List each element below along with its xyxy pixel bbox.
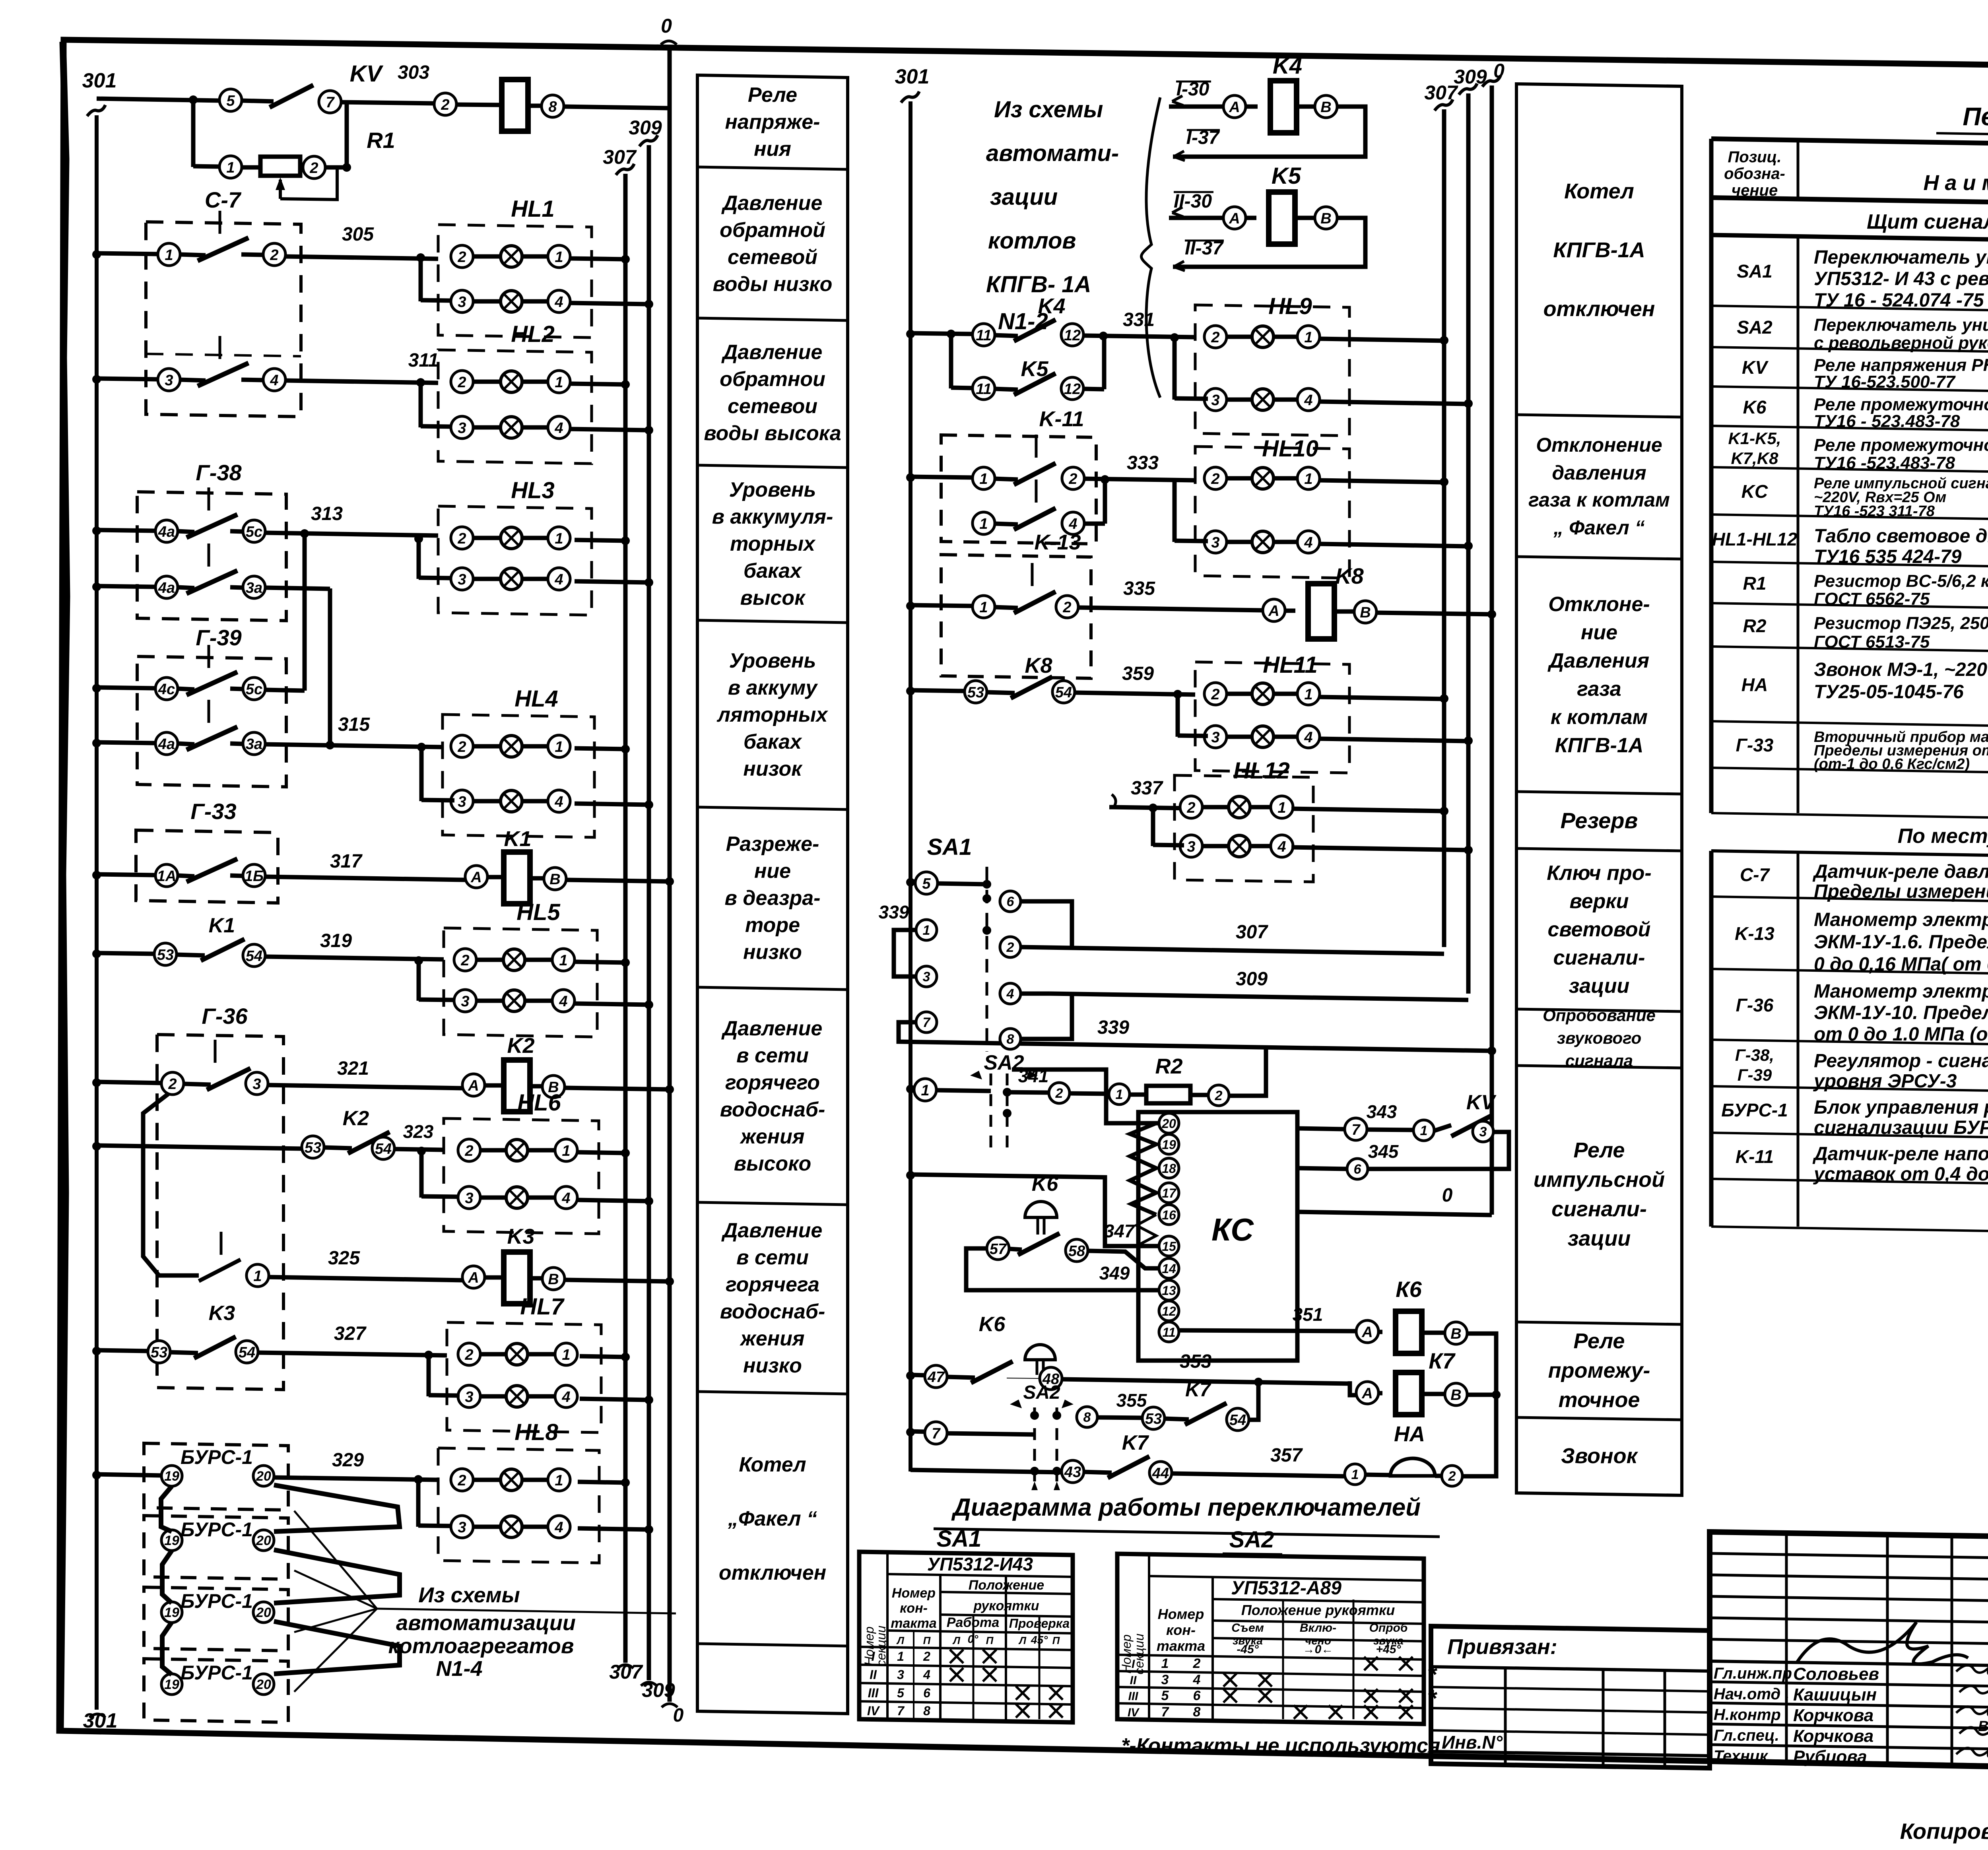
svg-text:K1-K5,: K1-K5, <box>1728 429 1781 448</box>
svg-text:БУРС-1: БУРС-1 <box>1721 1100 1788 1120</box>
svg-text:5: 5 <box>922 875 931 892</box>
svg-text:к котлам: к котлам <box>1551 706 1648 729</box>
svg-text:1: 1 <box>1277 800 1286 816</box>
svg-text:53: 53 <box>157 947 174 963</box>
svg-text:1: 1 <box>1161 1656 1169 1671</box>
svg-text:ГОСТ 6513-75: ГОСТ 6513-75 <box>1814 632 1930 652</box>
svg-text:торе: торе <box>745 914 800 937</box>
svg-text:в сети: в сети <box>736 1044 809 1067</box>
svg-text:Переключатель универсальный: Переключатель универсальный <box>1814 247 1988 268</box>
svg-text:K5: K5 <box>1272 163 1301 189</box>
svg-text:импульсной: импульсной <box>1534 1168 1665 1192</box>
svg-text:307: 307 <box>1424 82 1458 104</box>
svg-text:7: 7 <box>326 94 335 111</box>
svg-text:точное: точное <box>1559 1388 1640 1412</box>
svg-text:БУРС-1: БУРС-1 <box>181 1518 253 1541</box>
svg-text:KC: KC <box>1741 481 1768 502</box>
svg-text:КС: КС <box>1211 1212 1254 1247</box>
svg-text:307: 307 <box>1236 922 1268 943</box>
svg-text:337: 337 <box>1131 778 1163 799</box>
svg-text:C-7: C-7 <box>1740 864 1771 885</box>
svg-text:20: 20 <box>256 1677 271 1692</box>
svg-text:Давление: Давление <box>721 192 823 215</box>
svg-text:SA2: SA2 <box>1023 1382 1060 1403</box>
svg-text:53: 53 <box>1145 1411 1162 1427</box>
svg-text:Копировал: Ганкова: Копировал: Ганкова <box>1900 1819 1988 1844</box>
svg-text:Л: Л <box>896 1635 905 1646</box>
svg-text:4а: 4а <box>158 524 175 540</box>
svg-text:339: 339 <box>879 902 909 922</box>
svg-text:3: 3 <box>458 294 466 311</box>
svg-text:339: 339 <box>1097 1017 1129 1038</box>
svg-text:323: 323 <box>403 1121 434 1142</box>
svg-text:Г-33: Г-33 <box>1736 735 1774 755</box>
svg-text:B: B <box>549 871 560 888</box>
svg-text:19: 19 <box>164 1605 179 1620</box>
svg-text:сетевой: сетевой <box>728 246 817 269</box>
svg-text:SA2: SA2 <box>1229 1527 1274 1553</box>
svg-text:11: 11 <box>976 381 991 398</box>
svg-text:3: 3 <box>465 1190 473 1207</box>
svg-text:HL1-HL12: HL1-HL12 <box>1712 529 1798 549</box>
svg-text:3: 3 <box>1211 392 1219 409</box>
svg-text:Корчкова: Корчкова <box>1793 1706 1873 1725</box>
svg-text:4: 4 <box>1006 986 1014 1002</box>
svg-text:19: 19 <box>164 1469 179 1484</box>
svg-text:KV: KV <box>1466 1091 1497 1114</box>
svg-text:3: 3 <box>461 993 469 1010</box>
svg-text:343: 343 <box>1367 1101 1397 1122</box>
svg-text:K-11: K-11 <box>1039 407 1084 431</box>
svg-text:3: 3 <box>458 420 466 437</box>
svg-text:световой: световой <box>1548 918 1651 941</box>
svg-text:44: 44 <box>1152 1465 1169 1482</box>
svg-text:чение: чение <box>1732 182 1778 199</box>
svg-text:секции: секции <box>874 1625 888 1666</box>
svg-text:П: П <box>1052 1635 1060 1646</box>
svg-text:HL1: HL1 <box>511 196 555 222</box>
svg-text:ТУ25-05-1045-76: ТУ25-05-1045-76 <box>1814 681 1964 703</box>
svg-text:20: 20 <box>256 1605 271 1620</box>
svg-text:Г-36: Г-36 <box>202 1004 248 1029</box>
svg-text:HL11: HL11 <box>1263 652 1318 678</box>
svg-text:Реле: Реле <box>1574 1329 1625 1353</box>
svg-text:такта: такта <box>1157 1638 1205 1654</box>
svg-text:Отклонение: Отклонение <box>1536 434 1662 456</box>
svg-text:18: 18 <box>1162 1161 1176 1176</box>
svg-text:7: 7 <box>923 1015 931 1030</box>
svg-text:Реле промежуточное РП-25,~220V: Реле промежуточное РП-25,~220V,3з+2р <box>1814 435 1988 455</box>
svg-text:КПГВ-1А: КПГВ-1А <box>1553 238 1645 262</box>
svg-text:Г-36: Г-36 <box>1736 995 1774 1015</box>
svg-text:C-7: C-7 <box>205 187 242 212</box>
svg-text:обратнои: обратнои <box>720 368 825 391</box>
svg-text:БУРС-1: БУРС-1 <box>181 1446 253 1468</box>
svg-text:1: 1 <box>1351 1467 1359 1482</box>
svg-text:с револьверной рукояткой ТУ16-: с револьверной рукояткой ТУ16-524 074 -7… <box>1814 333 1988 353</box>
svg-text:3: 3 <box>1211 729 1219 746</box>
svg-text:отключен: отключен <box>1543 297 1655 321</box>
svg-text:3: 3 <box>897 1668 904 1682</box>
svg-text:Котел: Котел <box>739 1453 806 1476</box>
svg-text:7: 7 <box>932 1425 941 1442</box>
svg-text:Из схемы: Из схемы <box>994 97 1103 122</box>
svg-text:1: 1 <box>555 1472 563 1489</box>
svg-text:305: 305 <box>342 224 374 245</box>
svg-text:от 0 до 1.0 МПа (от 0 до 1: от 0 до 1.0 МПа (от 0 до 10 кгс/см²) <box>1814 1024 1988 1045</box>
svg-text:газа: газа <box>1577 677 1621 701</box>
svg-text:K1: K1 <box>504 827 531 851</box>
svg-text:345: 345 <box>1368 1141 1399 1162</box>
svg-text:Регулятор - сигнализатор: Регулятор - сигнализатор <box>1814 1050 1988 1072</box>
svg-text:11: 11 <box>1162 1325 1175 1339</box>
svg-text:3: 3 <box>165 372 173 389</box>
svg-text:2: 2 <box>1211 329 1219 346</box>
svg-text:ТУ 16-523.500-77: ТУ 16-523.500-77 <box>1814 372 1956 392</box>
svg-text:4: 4 <box>554 794 563 810</box>
svg-text:ЭКМ-1У-1.6. Пределы измерения: ЭКМ-1У-1.6. Пределы измерения от <box>1814 932 1988 953</box>
svg-text:329: 329 <box>332 1450 364 1471</box>
svg-text:воды высока: воды высока <box>704 422 841 445</box>
svg-text:3: 3 <box>458 794 466 810</box>
svg-text:баках: баках <box>744 730 802 753</box>
svg-text:Разреже-: Разреже- <box>726 833 819 856</box>
svg-text:6: 6 <box>1193 1688 1201 1703</box>
svg-text:1: 1 <box>555 249 563 266</box>
svg-text:4: 4 <box>270 372 278 389</box>
svg-text:327: 327 <box>334 1323 367 1344</box>
svg-text:3: 3 <box>1161 1672 1169 1687</box>
svg-text:2: 2 <box>1055 1086 1063 1101</box>
svg-text:A: A <box>470 869 481 886</box>
svg-text:309: 309 <box>629 116 662 139</box>
svg-text:58: 58 <box>1068 1243 1085 1260</box>
svg-text:Номер: Номер <box>1158 1606 1204 1622</box>
svg-text:54: 54 <box>375 1141 392 1157</box>
svg-text:7: 7 <box>1161 1704 1170 1720</box>
svg-text:303: 303 <box>398 62 429 83</box>
svg-text:2: 2 <box>464 1143 473 1159</box>
svg-text:0: 0 <box>661 15 672 37</box>
svg-text:Инв.N°: Инв.N° <box>1442 1732 1503 1753</box>
svg-text:1А: 1А <box>157 868 177 885</box>
svg-text:K-11: K-11 <box>1736 1146 1774 1167</box>
svg-text:Гл.инж.пр: Гл.инж.пр <box>1714 1665 1792 1682</box>
svg-text:в аккуму: в аккуму <box>728 676 819 699</box>
svg-text:333: 333 <box>1127 452 1159 474</box>
svg-text:6: 6 <box>923 1686 930 1700</box>
svg-text:SA2: SA2 <box>1737 317 1773 338</box>
svg-text:1: 1 <box>555 739 563 755</box>
svg-text:HL4: HL4 <box>514 686 558 712</box>
svg-text:II: II <box>870 1668 877 1682</box>
svg-text:2: 2 <box>460 952 469 969</box>
svg-text:УП5312-И43: УП5312-И43 <box>927 1554 1033 1574</box>
svg-text:ТУ16 -523.483-78: ТУ16 -523.483-78 <box>1814 453 1955 473</box>
svg-text:331: 331 <box>1123 309 1155 330</box>
svg-text:4: 4 <box>554 294 563 311</box>
svg-text:1: 1 <box>562 1347 570 1363</box>
svg-text:Манометр электроконтактный: Манометр электроконтактный <box>1814 981 1988 1002</box>
svg-text:1: 1 <box>979 599 988 616</box>
svg-text:5c: 5c <box>246 681 262 698</box>
svg-text:I: I <box>872 1649 876 1664</box>
svg-text:Позиц.: Позиц. <box>1728 148 1782 166</box>
svg-text:301: 301 <box>83 1709 118 1732</box>
svg-text:0°: 0° <box>968 1633 979 1645</box>
svg-text:Положение: Положение <box>969 1578 1044 1593</box>
svg-text:рукоятки: рукоятки <box>973 1598 1039 1613</box>
svg-text:359: 359 <box>1122 663 1154 684</box>
svg-text:Давление: Давление <box>721 341 823 364</box>
svg-text:Н а и м е н о в а н и е: Н а и м е н о в а н и е <box>1924 171 1988 195</box>
svg-text:8: 8 <box>1007 1032 1014 1047</box>
svg-text:0: 0 <box>1493 60 1505 82</box>
svg-text:B: B <box>1450 1387 1461 1404</box>
svg-text:2: 2 <box>270 247 278 264</box>
svg-text:K6: K6 <box>1743 397 1767 417</box>
svg-text:ГОСТ 6562-75: ГОСТ 6562-75 <box>1814 589 1930 609</box>
svg-text:2: 2 <box>1193 1656 1201 1671</box>
svg-text:такта: такта <box>891 1616 937 1631</box>
svg-text:IV: IV <box>867 1704 880 1718</box>
svg-text:53: 53 <box>967 684 984 701</box>
svg-text:жения: жения <box>739 1327 804 1350</box>
svg-text:Рубцова: Рубцова <box>1793 1747 1867 1767</box>
svg-text:в деазра-: в деазра- <box>724 887 820 910</box>
svg-text:давления: давления <box>1552 462 1646 484</box>
svg-text:17: 17 <box>1162 1186 1177 1200</box>
svg-text:Пределы измерения от 1 до 10 к: Пределы измерения от 1 до 10 кгс/см² <box>1814 881 1988 902</box>
svg-text:K-13: K-13 <box>1034 530 1081 554</box>
svg-text:313: 313 <box>311 503 343 524</box>
svg-text:R1: R1 <box>367 128 395 153</box>
svg-text:A: A <box>1361 1324 1373 1341</box>
svg-text:сигнала: сигнала <box>1565 1051 1633 1070</box>
svg-text:357: 357 <box>1270 1445 1303 1466</box>
svg-text:кон-: кон- <box>900 1601 928 1616</box>
svg-text:„Факел “: „Факел “ <box>728 1507 817 1530</box>
svg-text:0 до 0,16 МПа( от 0 до 1,6 кгс: 0 до 0,16 МПа( от 0 до 1,6 кгс/см²) <box>1814 954 1988 975</box>
svg-text:HL2: HL2 <box>511 321 555 347</box>
svg-text:Давления: Давления <box>1547 649 1649 672</box>
svg-text:КПГВ- 1А: КПГВ- 1А <box>986 272 1091 297</box>
svg-text:11: 11 <box>976 327 991 344</box>
svg-text:307: 307 <box>603 146 637 168</box>
svg-text:Г-38: Г-38 <box>196 460 242 485</box>
svg-text:2: 2 <box>457 739 466 755</box>
svg-text:K4: K4 <box>1038 294 1065 318</box>
svg-text:Соловьев: Соловьев <box>1793 1664 1879 1684</box>
svg-text:301: 301 <box>895 65 930 88</box>
svg-text:1: 1 <box>1304 329 1312 346</box>
svg-text:II: II <box>1130 1674 1137 1687</box>
svg-text:2: 2 <box>464 1347 473 1363</box>
svg-text:2: 2 <box>441 97 449 113</box>
svg-text:чено: чено <box>1305 1635 1331 1647</box>
svg-text:4а: 4а <box>158 736 175 753</box>
svg-text:III: III <box>1128 1690 1138 1703</box>
svg-text:баках: баках <box>744 559 802 582</box>
svg-text:1: 1 <box>979 471 988 487</box>
svg-text:Табло световое двухламповое ТС: Табло световое двухламповое ТСБ <box>1814 526 1988 547</box>
svg-text:котлов: котлов <box>988 228 1076 254</box>
svg-text:К7: К7 <box>1429 1348 1456 1373</box>
svg-text:1: 1 <box>1304 471 1312 487</box>
svg-text:сигнали-: сигнали- <box>1551 1197 1647 1221</box>
svg-text:2: 2 <box>1211 686 1219 703</box>
svg-text:K2: K2 <box>343 1107 369 1130</box>
svg-text:Нач.отд .: Нач.отд . <box>1714 1685 1789 1703</box>
svg-text:4: 4 <box>561 1389 570 1405</box>
svg-text:HL9: HL9 <box>1268 293 1312 319</box>
svg-text:промежу-: промежу- <box>1548 1359 1650 1382</box>
svg-text:5: 5 <box>1161 1688 1169 1703</box>
svg-text:K8: K8 <box>1025 654 1052 677</box>
svg-text:3: 3 <box>458 571 466 588</box>
svg-text:низко: низко <box>743 941 802 964</box>
svg-text:Работа: Работа <box>947 1615 1000 1630</box>
svg-text:HA: HA <box>1741 674 1768 695</box>
svg-text:1: 1 <box>1304 686 1312 703</box>
svg-text:II-30: II-30 <box>1174 191 1212 212</box>
svg-text:19: 19 <box>1162 1138 1176 1152</box>
svg-text:зации: зации <box>1569 975 1630 998</box>
svg-text:Н.контр: Н.контр <box>1714 1706 1781 1724</box>
svg-text:12: 12 <box>1162 1304 1176 1318</box>
svg-text:Уровень: Уровень <box>729 478 816 501</box>
svg-text:ТУ16 -523 311-78: ТУ16 -523 311-78 <box>1814 503 1935 520</box>
svg-text:Опробование: Опробование <box>1543 1006 1656 1025</box>
svg-text:„ Факел “: „ Факел “ <box>1553 516 1645 539</box>
svg-text:A: A <box>1229 210 1240 227</box>
svg-text:УП5312- И 43 с револьверной ру: УП5312- И 43 с револьверной рукояткой <box>1814 268 1988 289</box>
svg-text:3: 3 <box>465 1389 473 1405</box>
svg-text:347: 347 <box>1104 1221 1136 1241</box>
svg-text:ТУ 16 - 524.074 -75: ТУ 16 - 524.074 -75 <box>1814 290 1984 311</box>
svg-text:воды низко: воды низко <box>713 273 833 296</box>
svg-text:газа к котлам: газа к котлам <box>1528 489 1670 511</box>
svg-text:4: 4 <box>923 1668 930 1682</box>
svg-text:19: 19 <box>164 1533 179 1548</box>
svg-text:обратной: обратной <box>720 219 825 242</box>
svg-text:2: 2 <box>309 160 318 177</box>
svg-text:БУРС-1: БУРС-1 <box>181 1590 253 1612</box>
svg-text:HA: HA <box>1394 1422 1425 1446</box>
svg-text:уставок от 0,4 до 4 КПа(от 40: уставок от 0,4 до 4 КПа(от 40 до 400 кгс… <box>1813 1164 1988 1185</box>
svg-text:2: 2 <box>1186 800 1195 816</box>
svg-text:1: 1 <box>253 1268 262 1285</box>
svg-text:54: 54 <box>239 1344 255 1361</box>
svg-text:Г-33: Г-33 <box>190 799 236 824</box>
svg-text:4: 4 <box>559 993 567 1010</box>
svg-text:Переключатель универсальный УП: Переключатель универсальный УП5312-А89 <box>1814 315 1988 335</box>
svg-text:уровня ЭРСУ-3: уровня ЭРСУ-3 <box>1813 1071 1957 1092</box>
svg-text:K7: K7 <box>1122 1431 1149 1454</box>
svg-text:обозна-: обозна- <box>1724 165 1785 182</box>
svg-text:ТУ16 - 523.483-78: ТУ16 - 523.483-78 <box>1814 412 1960 431</box>
svg-text:A: A <box>468 1270 479 1286</box>
svg-text:349: 349 <box>1099 1263 1130 1283</box>
svg-text:звука: звука <box>1373 1635 1404 1647</box>
svg-text:высоко: высоко <box>734 1152 812 1175</box>
svg-text:горячега: горячега <box>726 1273 819 1296</box>
svg-text:1: 1 <box>897 1649 904 1664</box>
svg-text:1: 1 <box>165 247 173 264</box>
svg-text:Резистор ПЭ25, 2500 Ом: Резистор ПЭ25, 2500 Ом <box>1814 613 1988 633</box>
svg-text:K1: K1 <box>209 914 235 937</box>
svg-text:3а: 3а <box>246 580 262 596</box>
svg-text:торных: торных <box>730 532 816 555</box>
svg-text:8: 8 <box>1083 1410 1091 1425</box>
svg-text:Вспомогательное оборудование: Вспомогательное оборудование <box>1978 1718 1988 1734</box>
svg-text:351: 351 <box>1293 1304 1323 1325</box>
svg-text:HL7: HL7 <box>520 1294 565 1320</box>
svg-text:3: 3 <box>252 1076 261 1093</box>
svg-text:1: 1 <box>979 516 988 532</box>
svg-text:321: 321 <box>337 1058 369 1079</box>
svg-text:A: A <box>1268 603 1279 619</box>
svg-text:Реле: Реле <box>748 83 797 107</box>
svg-text:4: 4 <box>1304 534 1312 551</box>
svg-text:низко: низко <box>743 1354 802 1377</box>
svg-text:B: B <box>1320 99 1331 116</box>
svg-text:3: 3 <box>1211 534 1219 551</box>
svg-text:2: 2 <box>457 1472 466 1489</box>
svg-text:7: 7 <box>897 1704 905 1718</box>
svg-text:1: 1 <box>226 159 235 176</box>
svg-text:Датчик-реле давления ДД 10-20: Датчик-реле давления ДД 10-20 <box>1812 861 1988 882</box>
svg-text:0: 0 <box>1442 1185 1453 1206</box>
svg-text:HL12: HL12 <box>1233 758 1290 784</box>
svg-text:HL6: HL6 <box>517 1090 561 1116</box>
svg-text:водоснаб-: водоснаб- <box>720 1300 825 1323</box>
svg-text:1: 1 <box>923 923 930 938</box>
svg-text:К6: К6 <box>1396 1277 1422 1302</box>
svg-text:K3: K3 <box>209 1302 235 1325</box>
svg-text:низок: низок <box>743 757 803 780</box>
svg-text:2: 2 <box>1215 1088 1223 1103</box>
svg-text:3а: 3а <box>246 736 262 753</box>
svg-text:Проверка: Проверка <box>1009 1616 1070 1631</box>
svg-text:Резерв: Резерв <box>1561 808 1638 833</box>
svg-text:HL5: HL5 <box>516 899 560 925</box>
svg-text:1: 1 <box>555 374 563 391</box>
svg-text:SA1: SA1 <box>927 834 972 860</box>
svg-text:П: П <box>986 1635 994 1646</box>
svg-text:K-13: K-13 <box>1735 923 1774 944</box>
svg-text:A: A <box>468 1077 479 1094</box>
svg-text:(от-1 до 0,6 Кгс/см2): (от-1 до 0,6 Кгс/см2) <box>1814 756 1970 773</box>
svg-text:12: 12 <box>1064 327 1081 344</box>
svg-text:ТУ16 535 424-79: ТУ16 535 424-79 <box>1814 546 1962 567</box>
svg-text:Опроб: Опроб <box>1369 1621 1408 1635</box>
svg-text:KV: KV <box>1742 357 1769 378</box>
svg-text:Диаграмма работы переключателе: Диаграмма работы переключателей <box>951 1494 1421 1521</box>
svg-text:K4: K4 <box>1273 53 1302 79</box>
svg-text:HL10: HL10 <box>1262 436 1318 462</box>
svg-text:IV: IV <box>1128 1706 1140 1719</box>
svg-text:1: 1 <box>562 1143 570 1159</box>
svg-text:Положение рукоятки: Положение рукоятки <box>1241 1602 1395 1618</box>
svg-text:Г-39: Г-39 <box>1738 1066 1772 1084</box>
svg-text:1: 1 <box>559 952 567 969</box>
svg-text:8: 8 <box>1193 1704 1201 1720</box>
svg-text:4а: 4а <box>158 580 175 596</box>
svg-text:2: 2 <box>457 249 466 266</box>
svg-text:5c: 5c <box>246 524 262 540</box>
svg-text:По месту: По месту <box>1898 825 1988 848</box>
